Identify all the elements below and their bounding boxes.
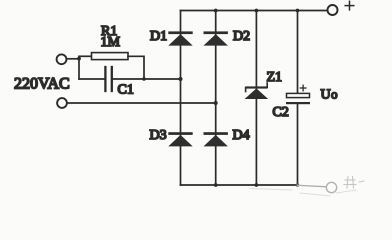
wire bridge column 2 vertical (D2/D4 leg) bbox=[215, 11, 217, 186]
zener diode Z1 bbox=[245, 83, 269, 99]
svg-text:Z1: Z1 bbox=[267, 70, 283, 85]
wire bridge column 1 vertical (D1/D3 leg) bbox=[180, 11, 182, 186]
node I (Z1 on bottom rail) bbox=[255, 183, 259, 187]
wire top positive rail bbox=[181, 10, 328, 12]
wire node A down to C1 row bbox=[78, 59, 80, 79]
terminal AC input bottom bbox=[57, 98, 67, 108]
diode D2 bbox=[204, 31, 228, 45]
capacitor C1 left plate bbox=[104, 67, 106, 91]
wire node A to R1 left lead bbox=[79, 55, 92, 57]
watermark faint glyphs bbox=[344, 177, 364, 189]
wire C1 left lead bbox=[79, 78, 104, 80]
wire C1 right lead to bridge column 1 bbox=[113, 78, 181, 80]
svg-text:1M: 1M bbox=[101, 35, 121, 50]
watermark faint scratch lines bbox=[250, 189, 356, 197]
svg-text:C2: C2 bbox=[273, 105, 289, 120]
svg-text:U: U bbox=[321, 88, 331, 103]
svg-text:D1: D1 bbox=[150, 29, 167, 44]
node G (C2 on top rail) bbox=[296, 9, 300, 13]
node B (R1 right lead joins C1 line) bbox=[142, 77, 146, 81]
diode D1 bbox=[168, 31, 192, 45]
node D (AC feed into D2/D4 column) bbox=[214, 101, 218, 105]
node H (D4 anode on bottom rail) bbox=[214, 183, 218, 187]
wire faded bottom rail to output negative terminal bbox=[298, 185, 327, 187]
node C (AC feed into D1/D3 column) bbox=[179, 77, 183, 81]
resistor R1 body bbox=[92, 53, 129, 60]
node A (junction of R1/C1 input) bbox=[77, 57, 81, 61]
label + polarity of C2 bbox=[300, 85, 306, 91]
diode D3 bbox=[168, 132, 192, 146]
label + polarity of output terminal bbox=[345, 1, 354, 10]
wire zener Z1 leg vertical bbox=[255, 11, 257, 186]
wire C2 top leg bbox=[297, 11, 299, 94]
wire R1 right lead bbox=[128, 56, 144, 79]
wire C2 bottom leg bbox=[297, 104, 299, 185]
node J (C2 on bottom rail, faded) bbox=[296, 183, 299, 186]
wire AC top terminal to node A bbox=[66, 58, 79, 60]
terminal output positive bbox=[328, 5, 338, 15]
node E (D2 cathode on top rail) bbox=[214, 9, 218, 13]
svg-text:o: o bbox=[331, 87, 338, 102]
svg-text:D4: D4 bbox=[233, 128, 250, 143]
wire bottom negative rail bbox=[181, 184, 298, 186]
diode D4 bbox=[204, 132, 228, 146]
wire AC bottom terminal to bridge column 2 bbox=[67, 102, 216, 104]
capacitor C2 negative plate bbox=[286, 102, 310, 104]
capacitor C1 right plate bbox=[111, 67, 113, 91]
svg-text:220VAC: 220VAC bbox=[14, 76, 70, 93]
svg-text:D3: D3 bbox=[150, 128, 167, 143]
svg-text:C1: C1 bbox=[118, 83, 134, 98]
capacitor C2 positive plate (hollow) bbox=[287, 93, 310, 97]
terminal AC input top bbox=[57, 54, 67, 64]
svg-text:D2: D2 bbox=[233, 29, 250, 44]
terminal output negative (faded) bbox=[326, 182, 336, 192]
node F (Z1 on top rail) bbox=[255, 9, 259, 13]
